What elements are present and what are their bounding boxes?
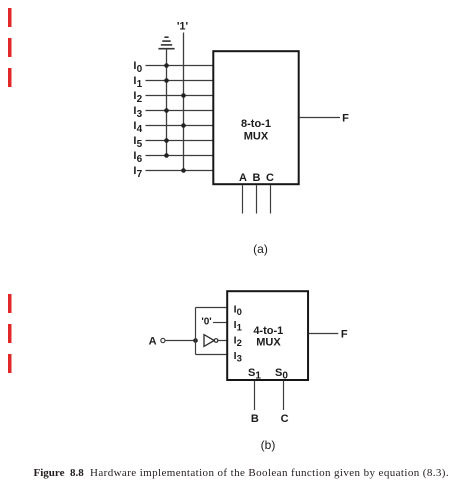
- wire I5: [146, 140, 214, 142]
- svg-text:8.8: 8.8: [70, 467, 84, 479]
- wire select C: [270, 185, 272, 213]
- junction I5/ground: [164, 138, 169, 143]
- wire I0: [146, 65, 214, 67]
- mux U2 4-to-1 box: [227, 291, 308, 380]
- svg-text:(a): (a): [253, 242, 268, 256]
- pin label S0: [275, 367, 288, 382]
- svg-text:B: B: [253, 172, 261, 184]
- svg-text:3: 3: [137, 109, 143, 120]
- junction node A: [193, 338, 198, 343]
- wire to I3 (b): [196, 354, 228, 356]
- pin label I0 (b): [234, 304, 242, 319]
- wire I4: [146, 125, 214, 127]
- wire '0' to I1 (b): [213, 322, 227, 324]
- inverter bubble: [214, 339, 218, 343]
- wire I3: [146, 110, 214, 112]
- wire junction up: [195, 308, 197, 341]
- wire I6: [146, 155, 214, 157]
- wire I2: [146, 95, 214, 97]
- svg-text:1: 1: [237, 323, 243, 334]
- red margin mark 6: [8, 354, 12, 373]
- svg-text:C: C: [266, 172, 274, 184]
- wire output F (a): [300, 117, 340, 119]
- junction I4/'1': [181, 123, 186, 128]
- label I3: [133, 105, 142, 120]
- wire inverter to I2 (b): [218, 340, 227, 342]
- svg-text:8-to-1: 8-to-1: [241, 118, 271, 130]
- svg-text:4-to-1: 4-to-1: [253, 325, 283, 337]
- terminal circle A: [161, 338, 165, 342]
- wire select B: [256, 185, 258, 213]
- junction I2/'1': [181, 93, 186, 98]
- svg-text:Figure: Figure: [34, 467, 65, 479]
- junction I6/ground: [164, 153, 169, 158]
- label I2: [133, 90, 142, 105]
- pin label I3 (b): [234, 350, 242, 365]
- wire I1: [146, 80, 214, 82]
- svg-text:2: 2: [137, 94, 143, 105]
- wire junction down: [195, 341, 197, 355]
- red margin mark 3: [8, 68, 12, 87]
- svg-text:MUX: MUX: [256, 337, 281, 349]
- junction I7/'1': [181, 168, 186, 173]
- red margin mark 2: [8, 38, 12, 57]
- label I5: [133, 135, 142, 150]
- label I1: [133, 75, 142, 90]
- wire ground vertical bus: [166, 49, 168, 156]
- svg-text:C: C: [281, 413, 289, 425]
- label I7: [133, 165, 142, 180]
- label I6: [133, 150, 142, 165]
- wire to I0 (b): [196, 307, 228, 309]
- svg-text:MUX: MUX: [244, 131, 269, 143]
- red margin mark 5: [8, 324, 12, 343]
- wire A to junction: [165, 340, 195, 342]
- svg-text:A: A: [149, 336, 157, 348]
- svg-text:5: 5: [137, 139, 143, 150]
- pin label S1: [248, 367, 261, 382]
- svg-text:F: F: [341, 328, 348, 340]
- svg-text:S: S: [275, 367, 282, 379]
- wire net '1' vertical bus: [183, 33, 185, 171]
- junction I0/ground: [164, 63, 169, 68]
- junction I1/ground: [164, 78, 169, 83]
- svg-text:3: 3: [237, 354, 242, 365]
- svg-text:0: 0: [237, 307, 242, 318]
- wire I7: [146, 170, 214, 172]
- red margin mark 1: [8, 8, 12, 27]
- junction I3/ground: [164, 108, 169, 113]
- svg-text:1: 1: [137, 79, 143, 90]
- svg-text:F: F: [342, 113, 349, 125]
- svg-text:1: 1: [255, 371, 261, 382]
- svg-text:2: 2: [237, 338, 242, 349]
- svg-text:6: 6: [137, 154, 143, 165]
- svg-text:7: 7: [137, 169, 143, 180]
- svg-text:'1': '1': [177, 21, 189, 33]
- svg-text:4: 4: [137, 124, 143, 135]
- svg-text:S: S: [248, 367, 255, 379]
- red margin mark 4: [8, 294, 12, 313]
- inverter gate: [204, 335, 214, 347]
- label I0: [133, 60, 142, 75]
- ground (logic 0 rail): [158, 37, 174, 49]
- wire S1 to B: [254, 381, 256, 410]
- pin label I1 (b): [234, 319, 243, 334]
- wire S0 to C: [283, 381, 285, 410]
- svg-text:(b): (b): [261, 438, 276, 452]
- pin label I2 (b): [234, 335, 242, 350]
- svg-text:'0': '0': [201, 317, 211, 328]
- wire select A: [242, 185, 244, 213]
- mux U1 8-to-1 box: [213, 51, 298, 184]
- svg-text:A: A: [239, 172, 247, 184]
- svg-text:Hardware implementation of the: Hardware implementation of the Boolean f…: [90, 467, 449, 479]
- svg-text:0: 0: [282, 371, 288, 382]
- svg-text:B: B: [251, 413, 259, 425]
- wire output F (b): [309, 333, 339, 335]
- label I4: [133, 120, 142, 135]
- svg-text:0: 0: [137, 64, 143, 75]
